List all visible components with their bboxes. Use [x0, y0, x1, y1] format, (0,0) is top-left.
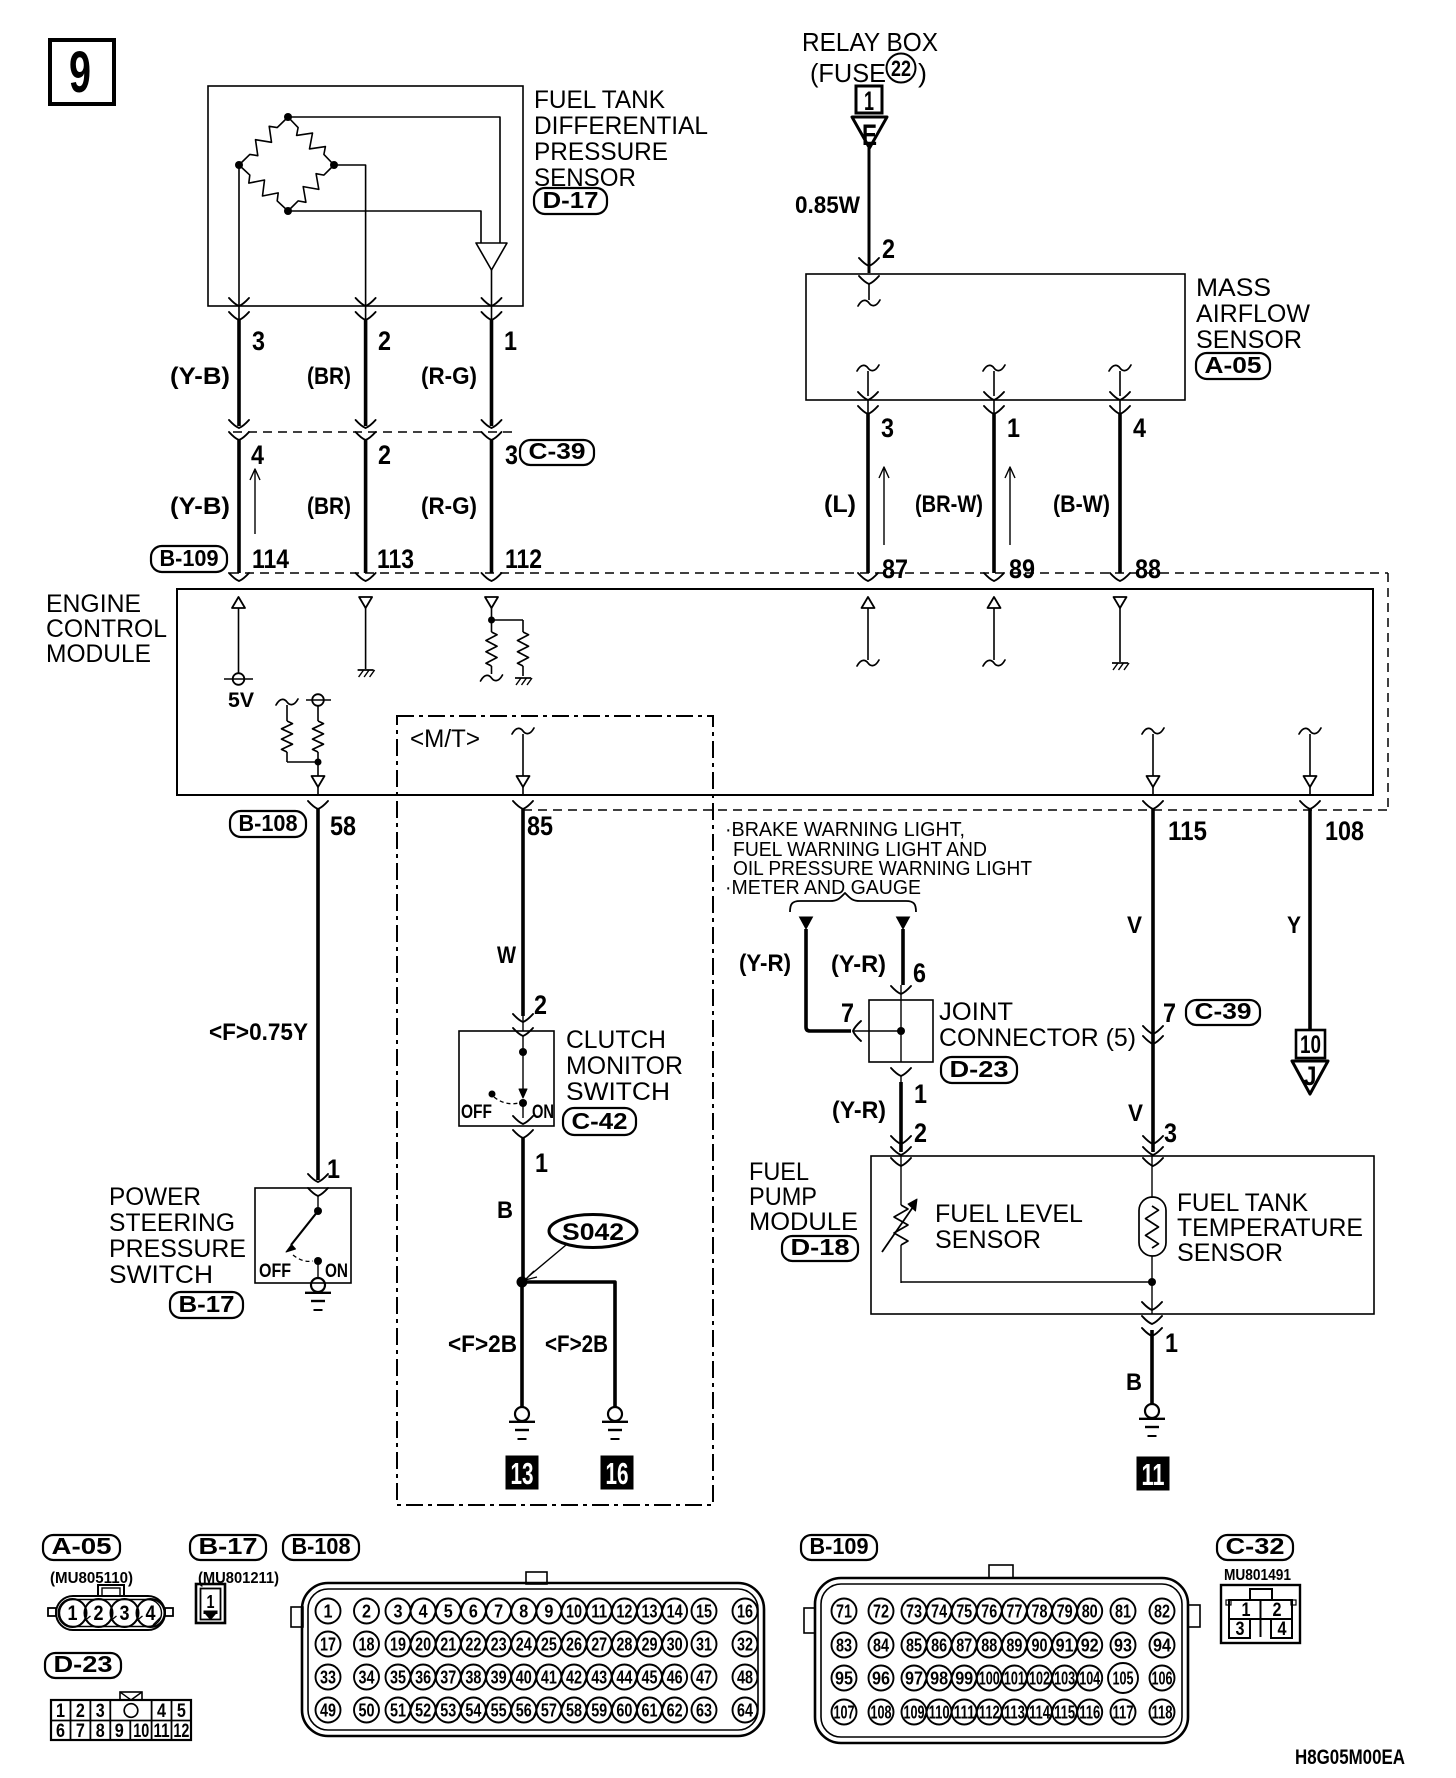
wire (Y-R) joint connector to fuel pump module	[900, 1076, 902, 1152]
svg-text:99: 99	[955, 1669, 973, 1689]
svg-text:ENGINE: ENGINE	[46, 590, 141, 618]
svg-text:8: 8	[519, 1602, 528, 1622]
ECM internal ground on pin 113	[358, 597, 375, 677]
svg-text:B: B	[497, 1197, 513, 1224]
svg-text:1: 1	[535, 1148, 548, 1178]
fuel pump module box D-18	[871, 1156, 1374, 1314]
svg-text:3: 3	[120, 1602, 130, 1625]
inter-system connector 10 square	[1296, 1030, 1325, 1059]
wire 115 V to fuel pump module	[1151, 809, 1155, 1152]
svg-text:1: 1	[207, 1592, 215, 1612]
svg-text:2: 2	[882, 234, 895, 264]
svg-text:W: W	[497, 942, 516, 969]
wire (BR) to ECM pin 113	[364, 440, 368, 573]
ECM internal 5V supply on pin 114	[224, 597, 254, 712]
svg-text:DIFFERENTIAL: DIFFERENTIAL	[534, 112, 708, 140]
svg-text:SENSOR: SENSOR	[935, 1226, 1041, 1254]
svg-text:D-23: D-23	[950, 1056, 1009, 1082]
svg-text:27: 27	[591, 1635, 607, 1655]
wire 85 W to clutch monitor switch	[521, 809, 525, 1016]
label FUEL TANK DIFFERENTIAL PRESSURE SENSOR	[534, 86, 708, 192]
label brake warning light fuel warning light oil pressure warning light meter and gauge	[725, 819, 1032, 899]
connector B-109 drawing	[804, 1565, 1200, 1743]
wire junction to fuel pump ground pin	[1151, 1282, 1153, 1314]
bridge resistor bottom-left	[239, 165, 288, 211]
svg-text:V: V	[1128, 1100, 1143, 1127]
svg-text:71: 71	[836, 1602, 852, 1622]
svg-text:ON: ON	[325, 1261, 348, 1282]
fuel level sensor variable resistor	[882, 1156, 917, 1283]
svg-text:56: 56	[516, 1701, 532, 1721]
sheet number 9 box	[50, 40, 114, 105]
svg-text:63: 63	[696, 1701, 712, 1721]
svg-text:23: 23	[491, 1635, 507, 1655]
svg-text:<F>2B: <F>2B	[448, 1331, 517, 1358]
ground symbol 13	[515, 1407, 529, 1421]
svg-text:74: 74	[931, 1602, 947, 1622]
svg-text:(B-W): (B-W)	[1053, 491, 1110, 518]
label JOINT CONNECTOR (5)	[939, 998, 1136, 1052]
svg-text:101: 101	[1004, 1669, 1025, 1689]
svg-text:PUMP: PUMP	[749, 1183, 817, 1211]
B-109 entry chevron wire 112	[482, 573, 502, 581]
joint connector box D-23	[853, 985, 933, 1062]
bridge resistor top-right	[288, 117, 334, 165]
ECM internal ground on pin 88	[1112, 597, 1129, 670]
svg-text:12: 12	[616, 1602, 632, 1622]
M/T manual transmission dash-dot boundary box	[397, 716, 713, 1505]
svg-text:2: 2	[914, 1118, 927, 1148]
connector pill D-17	[534, 188, 607, 214]
svg-text:16: 16	[606, 1456, 629, 1491]
svg-text:86: 86	[931, 1636, 947, 1656]
svg-text:49: 49	[320, 1701, 336, 1721]
wire (B-W) pin4 to ECM 88	[1119, 400, 1121, 414]
svg-text:115: 115	[1168, 816, 1207, 846]
svg-text:7: 7	[1163, 998, 1176, 1028]
fuel tank temperature sensor thermistor	[1139, 1156, 1166, 1282]
svg-text:OFF: OFF	[461, 1102, 492, 1123]
B-109 entry chevron wire 113	[356, 573, 376, 581]
svg-text:44: 44	[616, 1668, 632, 1688]
connector pill C-39 right	[1186, 1000, 1260, 1025]
svg-text:55: 55	[491, 1701, 507, 1721]
svg-text:53: 53	[440, 1701, 456, 1721]
svg-text:16: 16	[737, 1602, 753, 1622]
svg-text:SWITCH: SWITCH	[109, 1261, 213, 1289]
connector pill B-109 bottom	[801, 1535, 877, 1560]
connector pill D-18	[782, 1236, 858, 1261]
svg-text:5: 5	[177, 1701, 186, 1722]
svg-text:(L): (L)	[824, 491, 856, 518]
svg-text:9: 9	[69, 40, 91, 105]
B-109 entry chevron wire 88	[1110, 573, 1130, 581]
svg-text:C-32: C-32	[1226, 1533, 1285, 1559]
svg-text:13: 13	[511, 1456, 534, 1491]
svg-text:C-42: C-42	[572, 1108, 628, 1134]
svg-text:94: 94	[1153, 1636, 1171, 1656]
wire splice to ground 13	[520, 1282, 524, 1407]
svg-text:C-39: C-39	[529, 438, 586, 464]
svg-text:(BR-W): (BR-W)	[915, 491, 983, 518]
bridge node left	[235, 161, 243, 169]
direction arrow on wire 89	[1009, 469, 1011, 545]
connector D-23 drawing	[51, 1692, 191, 1742]
svg-text:38: 38	[465, 1668, 481, 1688]
mass airflow sensor box A-05	[806, 274, 1185, 400]
svg-text:B-108: B-108	[239, 810, 298, 836]
B-109 entry chevron wire 114	[229, 573, 249, 581]
ground symbol 11	[1145, 1404, 1159, 1418]
svg-text:(FUSE: (FUSE	[810, 58, 886, 88]
B-108 exit chevron wire 85	[513, 801, 533, 809]
connector C-32 drawing	[1221, 1585, 1300, 1643]
svg-text:4: 4	[1278, 1619, 1287, 1640]
wire (L) pin3 to ECM 87	[867, 400, 869, 414]
fuel pump entry chevrons left	[891, 1136, 911, 1166]
B-109 entry chevron wire 87	[858, 573, 878, 581]
ground reference 11 black box	[1137, 1457, 1169, 1490]
joint connector entry chevron	[891, 986, 911, 994]
svg-text:RELAY BOX: RELAY BOX	[802, 27, 938, 57]
svg-text:88: 88	[1135, 554, 1161, 584]
ECM internal pull resistors on pin 112	[481, 597, 533, 685]
svg-text:83: 83	[836, 1636, 852, 1656]
svg-text:76: 76	[981, 1602, 997, 1622]
svg-text:B-17: B-17	[199, 1533, 258, 1559]
wire pin3 (Y-B) from sensor to C-39	[229, 298, 249, 426]
svg-text:(Y-B): (Y-B)	[170, 363, 230, 390]
svg-text:73: 73	[906, 1602, 922, 1622]
connector A-05 drawing	[48, 1585, 173, 1630]
svg-text:87: 87	[956, 1636, 972, 1656]
wire pin1 (R-G) from sensor to C-39	[482, 298, 502, 426]
svg-text:18: 18	[359, 1635, 375, 1655]
B-108 exit chevron wire 58	[308, 801, 328, 809]
connector B-17 drawing	[196, 1584, 225, 1623]
svg-text:B-109: B-109	[160, 545, 219, 571]
ECM internal pull resistors on pin 58	[276, 694, 331, 794]
svg-text:59: 59	[591, 1701, 607, 1721]
svg-text:MASS: MASS	[1196, 274, 1271, 302]
clutch monitor switch box C-42	[459, 1031, 554, 1126]
svg-text:47: 47	[696, 1668, 712, 1688]
svg-text:2: 2	[1273, 1600, 1282, 1621]
svg-text:91: 91	[1056, 1636, 1074, 1656]
svg-text:102: 102	[1029, 1669, 1050, 1689]
wire from bridge left node down to pin 3	[238, 165, 240, 306]
svg-text:22: 22	[891, 56, 911, 81]
svg-text:4: 4	[146, 1602, 156, 1625]
svg-text:B-17: B-17	[179, 1291, 235, 1317]
svg-text:113: 113	[1004, 1703, 1025, 1723]
relay box terminal 1 square	[856, 86, 882, 116]
svg-text:OFF: OFF	[259, 1261, 291, 1282]
wire (R-G) to ECM pin 112	[490, 440, 494, 573]
svg-text:D-18: D-18	[791, 1234, 850, 1260]
svg-text:STEERING: STEERING	[109, 1209, 235, 1237]
svg-text:1: 1	[68, 1602, 78, 1625]
connector B-108 drawing	[291, 1572, 764, 1736]
svg-text:111: 111	[954, 1703, 975, 1723]
svg-text:1: 1	[327, 1154, 340, 1184]
svg-text:84: 84	[873, 1636, 889, 1656]
svg-text:112: 112	[505, 544, 542, 574]
svg-text:3: 3	[881, 413, 894, 443]
svg-text:114: 114	[252, 544, 289, 574]
svg-text:29: 29	[642, 1635, 658, 1655]
svg-text:2: 2	[76, 1701, 85, 1722]
connector pill B-109	[151, 546, 227, 572]
bridge node bottom	[284, 207, 292, 215]
power steering switch internals	[259, 1196, 348, 1282]
connector B-109 dashed boundary line	[230, 572, 1388, 574]
svg-text:S042: S042	[562, 1219, 624, 1246]
svg-text:C-39: C-39	[1195, 998, 1252, 1024]
joint connector exit chevron	[891, 1068, 911, 1076]
wire B from clutch switch to ground splice	[521, 1138, 525, 1282]
svg-text:<M/T>: <M/T>	[410, 725, 480, 753]
bridge node top	[284, 113, 292, 121]
svg-text:CONNECTOR (5): CONNECTOR (5)	[939, 1024, 1136, 1052]
svg-text:33: 33	[320, 1668, 336, 1688]
svg-text:25: 25	[541, 1635, 557, 1655]
wire 108 Y to connector 10	[1308, 809, 1312, 1030]
connector pill B-17 bottom	[190, 1535, 266, 1560]
svg-text:CONTROL: CONTROL	[46, 615, 167, 643]
svg-text:FUEL TANK: FUEL TANK	[1177, 1189, 1308, 1217]
svg-text:81: 81	[1115, 1602, 1131, 1622]
svg-text:22: 22	[465, 1635, 481, 1655]
svg-text:A-05: A-05	[52, 1533, 112, 1559]
splice junction S042	[517, 1277, 528, 1288]
svg-text:POWER: POWER	[109, 1183, 201, 1211]
svg-text:·BRAKE WARNING LIGHT,: ·BRAKE WARNING LIGHT,	[725, 819, 965, 841]
svg-text:57: 57	[541, 1701, 557, 1721]
svg-text:45: 45	[642, 1668, 658, 1688]
svg-text:(Y-R): (Y-R)	[831, 951, 886, 978]
svg-text:(Y-B): (Y-B)	[170, 493, 230, 520]
ground reference 16 black box	[601, 1456, 633, 1489]
ECM internal terminal pin 108	[1299, 728, 1321, 794]
svg-text:62: 62	[667, 1701, 683, 1721]
svg-text:1: 1	[1242, 1600, 1251, 1621]
svg-text:9: 9	[544, 1602, 553, 1622]
svg-text:58: 58	[566, 1701, 582, 1721]
svg-text:13: 13	[642, 1602, 658, 1622]
svg-text:89: 89	[1009, 554, 1035, 584]
svg-text:118: 118	[1152, 1703, 1173, 1723]
svg-text:4: 4	[419, 1602, 428, 1622]
junction node fuel pump module	[1148, 1278, 1156, 1286]
power steering pressure switch box B-17	[255, 1188, 351, 1283]
svg-text:6: 6	[469, 1602, 478, 1622]
svg-text:1: 1	[864, 86, 874, 116]
svg-text:2: 2	[362, 1602, 371, 1622]
svg-text:<F>2B: <F>2B	[545, 1331, 608, 1358]
svg-text:PRESSURE: PRESSURE	[534, 138, 668, 166]
svg-text:FUEL LEVEL: FUEL LEVEL	[935, 1200, 1083, 1228]
svg-text:11: 11	[591, 1602, 607, 1622]
wire level sensor to junction	[901, 1281, 1152, 1283]
C-39 crossing chevrons wire 2	[356, 420, 376, 440]
svg-text:4: 4	[1133, 413, 1146, 443]
fuel pump exit chevrons	[1142, 1302, 1162, 1336]
B-109 entry chevron wire 89	[984, 573, 1004, 581]
svg-text:J: J	[1304, 1061, 1317, 1091]
svg-text:108: 108	[1325, 816, 1364, 846]
svg-text:3: 3	[252, 326, 265, 356]
svg-text:117: 117	[1113, 1703, 1134, 1723]
svg-text:): )	[918, 58, 927, 88]
curly brace for warning lights	[790, 893, 916, 912]
connector pill C-42	[563, 1108, 636, 1135]
svg-text:110: 110	[929, 1703, 950, 1723]
label MASS AIRFLOW SENSOR	[1196, 274, 1310, 354]
ECM internal terminal pin 85	[512, 728, 534, 794]
svg-text:82: 82	[1154, 1602, 1170, 1622]
svg-text:32: 32	[737, 1635, 753, 1655]
svg-text:B-109: B-109	[810, 1533, 869, 1559]
svg-text:93: 93	[1114, 1636, 1132, 1656]
svg-text:48: 48	[737, 1668, 753, 1688]
fuel tank differential pressure sensor box D-17	[208, 86, 523, 306]
connector C-39 dashed boundary line	[233, 431, 517, 433]
ECM internal terminal pin 87	[857, 597, 879, 666]
ECM internal terminal pin 115	[1142, 728, 1164, 794]
svg-text:2: 2	[378, 440, 391, 470]
svg-text:72: 72	[873, 1602, 889, 1622]
svg-text:88: 88	[981, 1636, 997, 1656]
svg-text:3: 3	[505, 440, 518, 470]
svg-text:MODULE: MODULE	[749, 1208, 858, 1236]
power steering switch ground	[311, 1278, 325, 1292]
svg-text:CLUTCH: CLUTCH	[566, 1026, 666, 1054]
C-39 crossing chevrons wire 1	[482, 420, 502, 440]
MAF terminal pin 2 internal	[858, 276, 880, 306]
svg-text:85: 85	[527, 811, 553, 841]
svg-text:37: 37	[440, 1668, 456, 1688]
svg-text:5: 5	[444, 1602, 453, 1622]
svg-text:26: 26	[566, 1635, 582, 1655]
svg-text:54: 54	[465, 1701, 481, 1721]
splice S042 label ellipse	[549, 1215, 637, 1248]
svg-text:2: 2	[94, 1602, 104, 1625]
connector pill D-23 label	[941, 1057, 1017, 1083]
svg-text:SWITCH: SWITCH	[566, 1078, 670, 1106]
svg-text:SENSOR: SENSOR	[1177, 1239, 1283, 1267]
ECM internal terminal pin 89	[983, 597, 1005, 666]
svg-text:89: 89	[1006, 1636, 1022, 1656]
MAF terminal pin 4 internal	[1109, 365, 1131, 414]
svg-text:28: 28	[616, 1635, 632, 1655]
connector pill A-05	[1196, 353, 1270, 379]
svg-text:6: 6	[56, 1721, 65, 1742]
svg-text:1: 1	[56, 1701, 65, 1722]
svg-text:116: 116	[1079, 1703, 1100, 1723]
svg-text:35: 35	[390, 1668, 406, 1688]
svg-text:12: 12	[173, 1721, 189, 1742]
svg-text:105: 105	[1113, 1669, 1134, 1689]
bridge resistor bottom-right	[288, 165, 334, 211]
wire to warning lights left (Y-R)	[800, 917, 862, 1041]
svg-text:2: 2	[534, 990, 547, 1020]
svg-text:43: 43	[591, 1668, 607, 1688]
B-108 exit chevron wire 108	[1300, 801, 1320, 809]
svg-text:(Y-R): (Y-R)	[832, 1097, 886, 1124]
label RELAY BOX (FUSE 22)	[802, 27, 938, 88]
label FUEL LEVEL SENSOR	[935, 1200, 1083, 1254]
svg-text:<F>0.75Y: <F>0.75Y	[209, 1019, 308, 1046]
svg-text:106: 106	[1152, 1669, 1173, 1689]
svg-text:9: 9	[115, 1721, 124, 1742]
power steering switch entry chevrons	[308, 1174, 328, 1196]
direction arrow on wire 114	[254, 471, 256, 534]
svg-text:87: 87	[882, 554, 908, 584]
wire 0.85W from fuse to mass airflow sensor	[859, 148, 879, 273]
svg-text:(BR): (BR)	[307, 493, 351, 520]
clutch switch internals	[461, 1036, 554, 1124]
svg-text:ON: ON	[532, 1102, 554, 1123]
svg-text:5V: 5V	[228, 689, 254, 712]
svg-text:MODULE: MODULE	[46, 640, 151, 668]
svg-text:FUEL: FUEL	[749, 1158, 809, 1186]
svg-text:A-05: A-05	[1205, 352, 1262, 378]
svg-text:95: 95	[835, 1669, 853, 1689]
svg-text:96: 96	[872, 1669, 890, 1689]
svg-text:104: 104	[1079, 1669, 1100, 1689]
svg-text:19: 19	[390, 1635, 406, 1655]
label CLUTCH MONITOR SWITCH	[566, 1026, 683, 1106]
svg-text:0.85W: 0.85W	[795, 192, 860, 219]
svg-text:39: 39	[491, 1668, 507, 1688]
svg-text:PRESSURE: PRESSURE	[109, 1235, 246, 1263]
wire (BR-W) pin1 to ECM 89	[993, 400, 995, 414]
arrow from S042 label to splice	[525, 1245, 566, 1280]
svg-text:77: 77	[1006, 1602, 1022, 1622]
svg-text:21: 21	[440, 1635, 456, 1655]
svg-text:7: 7	[76, 1721, 85, 1742]
connector pill B-108	[230, 811, 306, 837]
clutch switch entry chevrons	[513, 1014, 533, 1036]
svg-text:85: 85	[906, 1636, 922, 1656]
svg-text:(R-G): (R-G)	[421, 363, 477, 390]
op-amp U1 amplifier triangle	[476, 243, 507, 270]
svg-text:30: 30	[667, 1635, 683, 1655]
svg-text:114: 114	[1029, 1703, 1050, 1723]
ECM dashed boundary right edge	[1387, 573, 1389, 810]
svg-text:8: 8	[96, 1721, 105, 1742]
ground reference 13 black box	[506, 1456, 538, 1489]
svg-text:1: 1	[1007, 413, 1020, 443]
label FUEL PUMP MODULE	[749, 1158, 858, 1236]
svg-text:FUEL TANK: FUEL TANK	[534, 86, 665, 114]
svg-text:JOINT: JOINT	[939, 998, 1013, 1026]
wire B fuel pump to ground 11	[1150, 1330, 1154, 1405]
svg-text:B: B	[1126, 1369, 1142, 1396]
svg-text:42: 42	[566, 1668, 582, 1688]
bridge node right	[330, 161, 338, 169]
svg-text:115: 115	[1054, 1703, 1075, 1723]
wire to warning lights right (Y-R)	[897, 917, 910, 985]
connector pill B-108 bottom	[283, 1535, 359, 1560]
svg-text:3: 3	[96, 1701, 105, 1722]
svg-text:3: 3	[1236, 1619, 1245, 1640]
svg-text:14: 14	[667, 1602, 683, 1622]
inter-system triangle J	[1292, 1061, 1328, 1094]
svg-text:MONITOR: MONITOR	[566, 1052, 683, 1080]
svg-text:98: 98	[930, 1669, 948, 1689]
